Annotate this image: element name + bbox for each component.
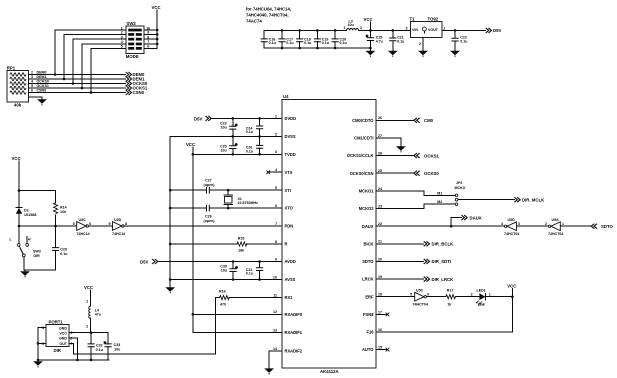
svg-text:DIR_BCLK: DIR_BCLK <box>432 242 455 247</box>
svg-text:D5V: D5V <box>194 116 202 121</box>
resistor R17 1k <box>446 289 456 307</box>
svg-text:AVDD: AVDD <box>285 259 296 264</box>
ground (RP1) <box>37 99 47 105</box>
svg-text:3: 3 <box>275 150 277 154</box>
svg-text:MCKO2: MCKO2 <box>359 206 375 211</box>
svg-text:74HC4040, 74HCT04,: 74HC4040, 74HCT04, <box>246 13 289 18</box>
capacitor C27 (open) <box>204 179 216 194</box>
capacitor C23 10u polarized <box>220 118 238 136</box>
svg-text:10: 10 <box>273 275 277 279</box>
node OCKS1 output arrow <box>126 86 148 91</box>
node CSN0 output arrow <box>126 90 145 95</box>
svg-text:6: 6 <box>275 204 277 208</box>
wire ground rail (DVSS/XTI/XTO/R/AVSS) <box>169 136 172 287</box>
node D5V output arrow <box>486 28 502 33</box>
svg-text:U4: U4 <box>283 94 289 99</box>
wire/bus CSN0 <box>28 89 125 94</box>
wire JP2 center to DIR_MCLK <box>458 199 514 201</box>
power flag VCC (PDN pull-up) <box>12 156 21 191</box>
power flag VCC (ERF pull-up) <box>507 284 516 332</box>
svg-text:74HCT04: 74HCT04 <box>413 303 428 307</box>
svg-text:0.1u: 0.1u <box>286 41 293 45</box>
svg-text:10u: 10u <box>221 149 227 153</box>
svg-text:TVDD: TVDD <box>285 152 296 157</box>
svg-text:0.1u: 0.1u <box>246 149 253 153</box>
wire T1 ground pin <box>419 38 423 51</box>
svg-text:13: 13 <box>273 328 277 332</box>
svg-text:JP2: JP2 <box>456 181 462 185</box>
wire LED1 to VCC rail <box>485 295 513 298</box>
node DAUX arrow <box>461 215 481 220</box>
svg-text:FSN8: FSN8 <box>363 312 374 317</box>
svg-text:10u: 10u <box>221 269 227 273</box>
svg-text:2: 2 <box>86 325 88 329</box>
svg-text:R15: R15 <box>238 237 245 241</box>
svg-text:0.1u: 0.1u <box>96 348 103 352</box>
svg-text:2: 2 <box>31 71 33 75</box>
svg-text:17: 17 <box>378 310 382 314</box>
wire RXADIF2 pin14 to ground <box>269 351 282 369</box>
wire PORT1 VCC row <box>69 331 108 334</box>
IC U4 AK4112A <box>273 94 382 374</box>
svg-text:22.5792MHz: 22.5792MHz <box>238 201 259 205</box>
ground (SW3) <box>20 271 30 277</box>
svg-text:MCKO: MCKO <box>455 186 466 190</box>
ground (RXADIF2) <box>264 368 274 374</box>
svg-text:26: 26 <box>378 116 382 120</box>
ground (C22) <box>450 51 460 57</box>
switch SW3 DIR <box>10 226 41 270</box>
wire SW2 pin2 to DEM1 bus <box>64 34 126 79</box>
svg-text:1: 1 <box>86 299 88 303</box>
capacitor C33 10u polarized <box>103 333 120 360</box>
svg-text:11: 11 <box>273 294 277 298</box>
svg-text:12: 12 <box>273 310 277 314</box>
wire PORT1 GND row to bottom rail <box>69 338 79 361</box>
svg-text:SDTO: SDTO <box>362 259 374 264</box>
svg-text:DEM0: DEM0 <box>37 71 47 75</box>
wire RXADIF0 row pin12 <box>193 313 282 315</box>
wire D2/R14 top tie <box>18 189 56 192</box>
svg-text:5: 5 <box>31 84 33 88</box>
svg-text:H: H <box>28 238 31 242</box>
capacitor C31 0.1u <box>246 262 263 280</box>
node SDTO arrow <box>591 224 613 229</box>
svg-text:74HC14: 74HC14 <box>112 232 125 236</box>
svg-text:10k: 10k <box>60 210 66 214</box>
svg-text:16: 16 <box>378 328 382 332</box>
svg-text:D2: D2 <box>24 209 29 213</box>
svg-text:14: 14 <box>273 347 277 351</box>
svg-text:OCKS1/CCLK: OCKS1/CCLK <box>347 153 374 158</box>
resistor R15 18k <box>237 237 247 253</box>
svg-text:DIR: DIR <box>34 254 41 258</box>
crystal X1 22.5792MHz <box>224 190 258 208</box>
svg-text:RX1: RX1 <box>285 295 294 300</box>
svg-text:F16: F16 <box>366 330 374 335</box>
svg-text:19: 19 <box>378 275 382 279</box>
wire SW2 pin1 to DEM0 bus <box>55 30 126 75</box>
svg-text:20: 20 <box>378 257 382 261</box>
node OCKS0 arrow <box>414 171 440 176</box>
wire U3C out to U3D in <box>88 225 112 227</box>
svg-text:25: 25 <box>378 169 382 173</box>
wire bottom ground bus <box>264 47 370 50</box>
junction dots on SW2 VCC rail <box>156 29 159 46</box>
power flag VCC (PORT1 supply) <box>84 285 93 306</box>
svg-text:D5V: D5V <box>140 260 148 265</box>
svg-text:ERF: ERF <box>478 303 486 307</box>
inductor L3 10u <box>344 19 363 30</box>
ground (CM1/CDTI) <box>396 146 406 152</box>
capacitor C22 0.1u <box>451 30 467 50</box>
capacitor C26 0.1u <box>246 136 263 154</box>
ground (T1) <box>418 51 428 57</box>
svg-text:DIR_SDTI: DIR_SDTI <box>432 259 452 264</box>
svg-text:5: 5 <box>73 222 75 226</box>
svg-text:0.1u: 0.1u <box>304 41 311 45</box>
svg-text:0.1u: 0.1u <box>60 252 67 256</box>
svg-text:0.1u: 0.1u <box>322 41 329 45</box>
svg-text:47u: 47u <box>95 313 101 317</box>
wire TVDD row pin3 <box>193 153 282 156</box>
inverter U3D 74HC14 <box>109 218 128 236</box>
wire CM0/CDTO pin26 <box>376 119 414 121</box>
svg-text:2: 2 <box>360 26 362 30</box>
svg-text:40k: 40k <box>14 102 22 107</box>
svg-text:5: 5 <box>275 186 277 190</box>
capacitor C20 0.1u <box>332 30 347 48</box>
note: bypass caps apply to logic ICs <box>246 7 291 24</box>
wire SDTO pin20 <box>376 260 424 262</box>
svg-text:5: 5 <box>410 293 412 297</box>
wire ERF pin18 to U5C <box>376 296 415 298</box>
svg-text:R14: R14 <box>60 206 67 210</box>
svg-text:(open): (open) <box>204 219 216 223</box>
svg-text:VCC: VCC <box>186 142 195 147</box>
svg-text:RXADIF2: RXADIF2 <box>285 349 303 354</box>
svg-text:RXADIF1: RXADIF1 <box>285 330 303 335</box>
ground (C15) <box>366 51 376 57</box>
svg-text:PDN: PDN <box>285 224 294 229</box>
svg-text:74HCT04: 74HCT04 <box>548 232 563 236</box>
svg-text:0.1u: 0.1u <box>460 40 467 44</box>
svg-text:8: 8 <box>125 222 127 226</box>
node D5V input arrow (DVDD) <box>194 116 211 122</box>
wire LRCK pin19 <box>376 278 424 280</box>
svg-text:2: 2 <box>471 293 473 297</box>
wire SW3/C29 bottom tie <box>24 270 56 271</box>
node D5V input arrow (AVDD) <box>140 259 158 265</box>
svg-text:6: 6 <box>31 89 33 93</box>
svg-text:XTO: XTO <box>285 206 294 211</box>
wire RXADIF1 row pin13 <box>193 331 282 333</box>
wire U5D in from U5A out <box>516 225 547 227</box>
svg-text:OCKS1: OCKS1 <box>37 84 49 88</box>
wire DAUX stub arrow <box>451 218 461 227</box>
no-connect VTX pin4 <box>266 170 282 174</box>
svg-text:T1: T1 <box>410 16 416 21</box>
regulator T1 TO92 <box>406 16 446 37</box>
wire PDN node <box>18 225 77 228</box>
ground (main rail) <box>165 287 175 293</box>
svg-text:10u: 10u <box>348 23 354 27</box>
resistor R16 470 <box>219 290 229 307</box>
svg-text:RXADIF0: RXADIF0 <box>285 312 303 317</box>
svg-text:2: 2 <box>275 132 277 136</box>
capacitor C17 0.1u <box>278 30 293 48</box>
svg-text:DIR_MCLK: DIR_MCLK <box>522 197 545 202</box>
svg-text:for 74HCU04, 74HC14,: for 74HCU04, 74HC14, <box>246 7 291 12</box>
inverter U3C 74HC14 <box>73 218 92 236</box>
svg-text:OCKS0/CSN: OCKS0/CSN <box>350 171 374 176</box>
svg-text:VIN: VIN <box>412 28 418 32</box>
svg-text:D5V: D5V <box>493 28 501 33</box>
svg-text:18k: 18k <box>238 249 244 253</box>
svg-text:OUT: OUT <box>59 342 67 346</box>
svg-text:DEM1: DEM1 <box>37 75 47 79</box>
node OCKS1 arrow <box>414 153 440 158</box>
svg-text:OCKS0: OCKS0 <box>37 80 49 84</box>
inverter U5C 74HCT04 <box>410 289 429 307</box>
wire DAUX pin22 from U5D <box>376 225 505 228</box>
svg-text:SDTO: SDTO <box>601 224 614 229</box>
svg-text:VTX: VTX <box>285 170 293 175</box>
capacitor C16 0.1u <box>261 30 276 48</box>
svg-text:VCC: VCC <box>84 285 93 290</box>
wire DVSS row pin2 <box>170 135 282 138</box>
wire/bus DEM1 <box>28 75 125 80</box>
svg-text:74AC74: 74AC74 <box>246 19 262 24</box>
svg-text:DIR_LRCK: DIR_LRCK <box>432 277 455 282</box>
node DEM0 output arrow <box>126 72 145 77</box>
wire U3D out to PDN pin7 <box>124 225 282 227</box>
svg-text:6: 6 <box>427 293 429 297</box>
svg-text:RP1: RP1 <box>7 66 16 71</box>
svg-text:9: 9 <box>109 222 111 226</box>
svg-text:1: 1 <box>344 26 346 30</box>
svg-text:LED1: LED1 <box>477 289 486 293</box>
svg-text:ERF: ERF <box>365 294 374 299</box>
svg-text:VOUT: VOUT <box>428 28 439 32</box>
resistor network RP1 40k <box>7 66 29 108</box>
svg-text:CM0/CDTO: CM0/CDTO <box>352 118 374 123</box>
header JP2 MCKO <box>455 181 466 206</box>
no-connect FSN8 pin17 <box>376 313 389 317</box>
svg-text:10u: 10u <box>221 126 227 130</box>
ground (C21) <box>388 51 398 57</box>
wire SW2 pin5 to CSN0 bus <box>91 48 126 92</box>
wire BICK pin21 <box>376 243 424 245</box>
node CM0 arrow <box>414 118 434 123</box>
svg-text:21: 21 <box>378 240 382 244</box>
svg-text:0.1u: 0.1u <box>269 41 276 45</box>
svg-text:3: 3 <box>31 75 33 79</box>
diode D2 1S1588 <box>16 191 37 226</box>
ground (PORT1) <box>33 361 43 367</box>
svg-text:MCKO1: MCKO1 <box>359 189 375 194</box>
svg-text:VCC: VCC <box>12 156 21 161</box>
wire U5C out to R17 <box>426 296 445 298</box>
svg-text:R17: R17 <box>447 289 454 293</box>
svg-text:22: 22 <box>378 222 382 226</box>
svg-text:C29: C29 <box>60 247 67 251</box>
svg-text:MODE: MODE <box>126 54 139 59</box>
wire U5A in from SDTO <box>560 225 591 227</box>
svg-text:3: 3 <box>406 26 408 30</box>
wire T1 output to D5V <box>442 29 486 32</box>
capacitor C25 10u polarized <box>220 136 238 154</box>
svg-text:GND: GND <box>59 337 67 341</box>
svg-text:PORT1: PORT1 <box>49 320 64 325</box>
svg-text:0.1u: 0.1u <box>246 130 253 134</box>
no-connect AUTO pin15 <box>376 348 389 352</box>
svg-text:470: 470 <box>220 302 226 306</box>
power flag VCC (main rail) <box>364 17 373 32</box>
svg-text:CM1/CDTI: CM1/CDTI <box>354 136 373 141</box>
svg-text:1: 1 <box>443 26 445 30</box>
svg-text:SW3: SW3 <box>33 250 41 254</box>
svg-text:1: 1 <box>275 114 277 118</box>
wire SW2 pin3 to OCKS0 bus <box>73 39 126 83</box>
wire MCKO1 pin24 to jumper M1 <box>376 191 455 195</box>
svg-text:U5C: U5C <box>416 289 424 293</box>
svg-text:LRCK: LRCK <box>362 277 373 282</box>
svg-text:VCC: VCC <box>507 284 516 289</box>
node DIR_LRCK arrow <box>424 277 454 282</box>
svg-text:DVSS: DVSS <box>285 134 296 139</box>
optical module PORT1 DIR <box>42 320 72 353</box>
svg-text:23: 23 <box>378 204 382 208</box>
svg-text:CM0: CM0 <box>424 118 434 123</box>
svg-text:28: 28 <box>378 152 382 156</box>
svg-text:9: 9 <box>275 257 277 261</box>
svg-text:0.1u: 0.1u <box>340 41 347 45</box>
svg-text:1k: 1k <box>447 303 451 307</box>
svg-text:7: 7 <box>275 222 277 226</box>
svg-text:24: 24 <box>378 187 382 191</box>
node DIR_BCLK arrow <box>424 241 454 246</box>
svg-text:R16: R16 <box>219 290 226 294</box>
wire XTI row pin5 <box>170 189 282 192</box>
wire CM1/CDTI pin27 to ground <box>376 138 401 146</box>
svg-text:4.7u: 4.7u <box>376 39 383 43</box>
svg-text:10u: 10u <box>114 347 120 351</box>
wire R row pin8 <box>170 243 282 245</box>
svg-text:OCKS0: OCKS0 <box>424 171 439 176</box>
svg-text:2: 2 <box>545 222 547 226</box>
svg-text:6: 6 <box>89 222 91 226</box>
wire RX1 row pin11 with R16 <box>216 297 282 299</box>
wire OCKS0/CSN pin25 <box>376 172 414 174</box>
svg-text:U3D: U3D <box>114 218 122 222</box>
svg-text:AUTO: AUTO <box>362 347 374 352</box>
node DEM1 output arrow <box>126 77 145 82</box>
wire/bus OCKS1 <box>28 84 125 89</box>
svg-text:BICK: BICK <box>363 241 373 246</box>
svg-text:VCC: VCC <box>364 17 373 22</box>
capacitor C15 4.7u polarized <box>366 30 383 50</box>
wire F16 pin16 to VCC <box>376 331 512 333</box>
capacitor C32 0.1u <box>88 333 103 360</box>
svg-text:3: 3 <box>518 222 520 226</box>
svg-text:0.1u: 0.1u <box>246 272 253 276</box>
capacitor C24 0.1u <box>246 118 263 136</box>
svg-text:SW2: SW2 <box>127 21 137 26</box>
svg-text:0.1u: 0.1u <box>397 39 404 43</box>
wire SW2 pin4 to OCKS1 bus <box>82 44 126 88</box>
svg-text:8: 8 <box>275 240 277 244</box>
capacitor C19 0.1u <box>314 30 329 48</box>
svg-text:4: 4 <box>275 168 277 172</box>
wire/bus OCKS0 <box>28 80 125 85</box>
svg-text:74HC14: 74HC14 <box>77 232 90 236</box>
wire AVDD row pin9 <box>158 260 282 263</box>
svg-text:L: L <box>10 238 13 242</box>
svg-text:AK4112A: AK4112A <box>320 369 339 374</box>
wire PORT1 ground pins <box>37 328 46 362</box>
wire top supply bus <box>264 29 410 32</box>
wire PORT1 bottom ground rail <box>38 359 109 362</box>
svg-text:1S1588: 1S1588 <box>24 213 36 217</box>
svg-text:DVDD: DVDD <box>285 116 297 121</box>
capacitor C29 0.1u <box>52 226 68 270</box>
svg-text:U5A: U5A <box>552 218 560 222</box>
svg-text:18: 18 <box>378 293 382 297</box>
svg-text:27: 27 <box>378 134 382 138</box>
svg-text:1: 1 <box>562 222 564 226</box>
svg-text:VCC: VCC <box>152 5 161 10</box>
svg-text:U5D: U5D <box>508 218 516 222</box>
svg-text:(open): (open) <box>204 183 216 187</box>
inverter U5A 74HCT04 <box>545 218 564 236</box>
capacitor C28 (open) <box>204 205 216 223</box>
svg-text:4: 4 <box>31 80 33 84</box>
svg-text:R: R <box>285 242 288 247</box>
svg-text:AVSS: AVSS <box>285 277 296 282</box>
wire OCKS1/CCLK pin28 <box>376 155 414 157</box>
svg-text:TO92: TO92 <box>428 16 439 21</box>
wire AVSS row pin10 <box>170 278 282 281</box>
wire DVDD row pin1 <box>212 117 283 120</box>
switch SW2 (MODE) <box>121 21 150 59</box>
wire RP1 common to ground <box>28 97 42 99</box>
wire/bus DEM0 <box>28 71 125 76</box>
svg-text:DAUX: DAUX <box>362 224 374 229</box>
node DIR_MCLK arrow <box>514 197 545 202</box>
svg-text:VCC: VCC <box>59 332 67 336</box>
resistor R14 10k <box>54 191 67 226</box>
svg-text:GND: GND <box>59 326 67 330</box>
wire PORT1 OUT to R16 <box>69 298 216 355</box>
node OCKS0 output arrow <box>126 81 148 86</box>
LED LED1 ERF <box>476 289 491 307</box>
svg-text:M2: M2 <box>437 200 442 204</box>
capacitor C30 10u polarized <box>220 262 238 280</box>
svg-text:XTI: XTI <box>285 188 291 193</box>
svg-text:4: 4 <box>501 222 503 226</box>
svg-text:CSN0: CSN0 <box>37 89 47 93</box>
svg-text:2: 2 <box>419 42 421 46</box>
svg-text:DAUX: DAUX <box>470 215 482 220</box>
capacitor C21 0.1u <box>389 29 404 51</box>
inductor L4 47u <box>86 306 101 333</box>
svg-text:M1: M1 <box>437 191 442 195</box>
node DIR_SDTI arrow <box>424 259 451 264</box>
svg-text:74HCT04: 74HCT04 <box>504 232 519 236</box>
svg-text:CSN0: CSN0 <box>133 90 145 95</box>
wire R17 to LED1 <box>455 293 479 297</box>
